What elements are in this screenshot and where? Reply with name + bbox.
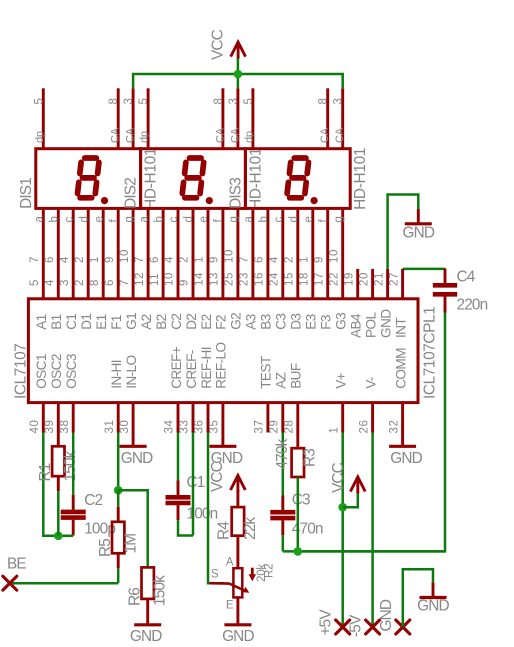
wire V- net	[371, 433, 374, 628]
svg-text:OSC2: OSC2	[49, 354, 64, 389]
pin d DIS2 to IC D2 (pin 9)	[192, 208, 195, 298]
svg-text:b: b	[49, 216, 61, 222]
wire R5 to BE net	[117, 568, 120, 583]
svg-text:8: 8	[89, 279, 101, 286]
IC pin 36 REF-HI	[207, 403, 210, 433]
wire GND connector to ground	[403, 569, 433, 627]
svg-text:5: 5	[29, 279, 41, 286]
svg-text:2: 2	[179, 256, 191, 263]
svg-text:22: 22	[328, 272, 340, 286]
svg-text:34: 34	[164, 420, 176, 434]
wire IC pin 21 GND to ground	[388, 195, 419, 269]
svg-text:8: 8	[108, 98, 120, 105]
svg-text:100n: 100n	[187, 506, 218, 523]
svg-text:AB4: AB4	[349, 313, 364, 338]
svg-text:dp: dp	[139, 131, 151, 143]
svg-text:10: 10	[119, 249, 131, 263]
wire VCC stub DIS2 anode	[237, 74, 240, 88]
svg-text:470n: 470n	[292, 521, 323, 538]
resistor R6 150k	[142, 567, 154, 599]
svg-text:TEST: TEST	[259, 356, 274, 389]
svg-text:F1: F1	[109, 315, 124, 330]
pin CA DIS2 (8)	[221, 88, 224, 148]
svg-text:C4: C4	[457, 269, 476, 286]
svg-text:9: 9	[209, 256, 221, 263]
pin b DIS1 to IC B1 (pin 4)	[57, 208, 60, 298]
svg-text:31: 31	[104, 420, 116, 434]
svg-text:A: A	[226, 557, 234, 569]
svg-text:38: 38	[59, 420, 71, 434]
wire OSC1 net	[43, 433, 73, 536]
pin a DIS2 to IC A2 (pin 12)	[147, 208, 150, 298]
svg-text:2: 2	[74, 279, 86, 286]
svg-text:dp: dp	[34, 131, 46, 143]
svg-text:GND: GND	[390, 450, 422, 467]
svg-text:16: 16	[254, 272, 266, 286]
svg-text:1M: 1M	[123, 534, 140, 554]
svg-text:1: 1	[328, 427, 340, 434]
IC pin 26 V-	[371, 403, 374, 433]
svg-text:R6: R6	[126, 588, 143, 606]
svg-text:REF-LO: REF-LO	[214, 343, 229, 389]
pin g DIS1 to IC G1 (pin 7)	[132, 208, 135, 298]
svg-text:CA: CA	[110, 127, 122, 143]
svg-text:C3: C3	[292, 492, 310, 509]
svg-text:B3: B3	[259, 314, 274, 329]
svg-text:4: 4	[59, 256, 71, 263]
connector BE	[3, 576, 17, 590]
supply VCC top	[231, 42, 246, 57]
svg-text:6: 6	[44, 256, 56, 263]
svg-text:CA: CA	[214, 127, 226, 143]
svg-text:9: 9	[179, 279, 191, 286]
svg-text:2: 2	[74, 256, 86, 263]
svg-text:S: S	[211, 569, 219, 581]
IC pin 30 IN-LO	[132, 403, 135, 433]
svg-text:G1: G1	[124, 313, 139, 330]
IC pin 1 V+	[341, 403, 344, 433]
svg-text:C1: C1	[187, 474, 205, 491]
svg-text:OSC3: OSC3	[64, 354, 79, 389]
pin b DIS2 to IC B2 (pin 11)	[162, 208, 165, 298]
wire VCC rail to display anodes	[133, 74, 343, 88]
svg-text:24: 24	[269, 272, 281, 286]
svg-text:R1: R1	[37, 463, 54, 481]
pin a DIS1 to IC A1 (pin 5)	[42, 208, 45, 298]
svg-text:33: 33	[179, 420, 191, 434]
svg-text:D3: D3	[289, 314, 304, 330]
svg-text:C1: C1	[64, 314, 79, 330]
pin d DIS1 to IC D1 (pin 2)	[87, 208, 90, 298]
wire to R6	[118, 490, 148, 567]
svg-text:c: c	[168, 217, 180, 223]
wire REF-HI to R2 wiper	[208, 433, 224, 584]
svg-text:C3: C3	[274, 314, 289, 330]
svg-text:d: d	[288, 216, 300, 222]
pin g DIS2 to IC G2 (pin 25)	[236, 208, 239, 298]
svg-text:E1: E1	[94, 314, 109, 329]
svg-text:E2: E2	[199, 314, 214, 329]
svg-text:R3: R3	[301, 449, 318, 467]
svg-text:26: 26	[358, 420, 370, 434]
svg-text:150k: 150k	[151, 575, 168, 606]
svg-text:e: e	[303, 216, 315, 222]
svg-text:4: 4	[269, 256, 281, 263]
svg-text:19: 19	[343, 272, 355, 286]
junction OSC1/R1/C2	[54, 532, 63, 541]
svg-text:e: e	[93, 216, 105, 222]
svg-text:21: 21	[373, 272, 385, 286]
svg-text:g: g	[333, 216, 345, 222]
capacitor C4	[444, 268, 447, 283]
svg-text:C2: C2	[84, 492, 102, 509]
svg-text:2: 2	[284, 256, 296, 263]
pin e DIS1 to IC E1 (pin 8)	[102, 208, 105, 298]
svg-text:7: 7	[239, 256, 251, 263]
pin CA DIS1 (8)	[117, 88, 120, 148]
junction V+	[338, 503, 347, 512]
resistor R5 1M	[117, 507, 120, 522]
svg-text:3: 3	[59, 279, 71, 286]
svg-text:10: 10	[164, 272, 176, 286]
display DIS1 HD-H101	[36, 149, 141, 209]
junction IN-HI	[114, 486, 123, 495]
connector +5V	[336, 620, 350, 634]
svg-text:GND: GND	[378, 309, 393, 338]
svg-text:A2: A2	[139, 314, 154, 329]
svg-text:D2: D2	[184, 314, 199, 330]
IC pin 27 INT	[401, 269, 404, 299]
pin c DIS3 to IC C3 (pin 24)	[281, 208, 284, 298]
svg-text:CA: CA	[319, 127, 331, 143]
wire IC pin 27 INT to C4	[403, 268, 445, 271]
wire IN-HI net	[117, 433, 120, 491]
wire V+ net	[341, 433, 344, 628]
pin CA DIS2 (3)	[236, 88, 239, 148]
svg-text:17: 17	[313, 272, 325, 286]
svg-text:CA: CA	[229, 127, 241, 143]
svg-text:22k: 22k	[242, 517, 259, 540]
IC pin 37 TEST	[266, 403, 269, 433]
svg-text:30: 30	[119, 420, 131, 434]
svg-text:c: c	[63, 217, 75, 223]
svg-text:V+: V+	[334, 372, 349, 388]
wire C1 to CREF-	[178, 520, 193, 535]
svg-text:14: 14	[194, 272, 206, 286]
svg-text:A3: A3	[244, 314, 259, 329]
capacitor C2 100p	[72, 433, 75, 495]
wire C4 to auto-zero node	[298, 312, 445, 551]
svg-text:R5: R5	[97, 539, 114, 557]
svg-text:40: 40	[29, 420, 41, 434]
pin c DIS2 to IC C2 (pin 10)	[177, 208, 180, 298]
svg-text:36: 36	[194, 420, 206, 434]
svg-text:b: b	[153, 216, 165, 222]
svg-text:150k: 150k	[62, 450, 79, 481]
svg-text:GND: GND	[402, 225, 434, 242]
svg-text:12: 12	[134, 272, 146, 286]
pin a DIS3 to IC A3 (pin 23)	[251, 208, 254, 298]
pin e DIS2 to IC E2 (pin 14)	[207, 208, 210, 298]
junction auto-zero node	[294, 547, 303, 556]
svg-text:3: 3	[228, 98, 240, 105]
capacitor C3 470n	[281, 496, 284, 511]
pin dp DIS2	[147, 88, 150, 148]
pin CA DIS3 (3)	[341, 88, 344, 148]
IC pin 34 CREF+	[177, 403, 180, 433]
svg-text:-5V: -5V	[348, 614, 365, 637]
pin e DIS3 to IC E3 (pin 18)	[311, 208, 314, 298]
svg-text:F2: F2	[214, 315, 229, 330]
ground on IC pin	[132, 432, 135, 447]
svg-text:d: d	[78, 216, 90, 222]
svg-text:C2: C2	[169, 314, 184, 330]
svg-text:VCC: VCC	[330, 462, 347, 493]
svg-text:4: 4	[164, 256, 176, 263]
svg-text:32: 32	[388, 420, 400, 434]
wire CREF- net	[192, 433, 195, 536]
IC pin 39 OSC2	[57, 403, 60, 433]
svg-text:+5V: +5V	[318, 609, 335, 636]
svg-text:REF-HI: REF-HI	[199, 347, 214, 389]
svg-text:IN-LO: IN-LO	[124, 356, 139, 389]
svg-text:3: 3	[123, 98, 135, 105]
svg-text:E: E	[226, 600, 234, 612]
svg-text:CA: CA	[334, 127, 346, 143]
svg-text:7: 7	[119, 279, 131, 286]
svg-text:HD-H101: HD-H101	[247, 148, 264, 210]
svg-text:CREF+: CREF+	[169, 346, 184, 389]
svg-text:VCC: VCC	[210, 29, 227, 60]
svg-text:VCC: VCC	[209, 461, 226, 492]
svg-text:D1: D1	[79, 314, 94, 330]
svg-text:8: 8	[213, 98, 225, 105]
svg-text:3: 3	[333, 98, 345, 105]
pin d DIS3 to IC D3 (pin 15)	[296, 208, 299, 298]
svg-text:20: 20	[358, 272, 370, 286]
svg-text:DIS2: DIS2	[123, 178, 140, 209]
svg-text:6: 6	[149, 256, 161, 263]
svg-text:COMM: COMM	[393, 348, 408, 389]
wire BE	[10, 582, 118, 585]
svg-text:29: 29	[269, 420, 281, 434]
svg-text:23: 23	[239, 272, 251, 286]
svg-text:10: 10	[328, 249, 340, 263]
IC pin 31 IN-HI	[117, 403, 120, 433]
connector -5V	[366, 620, 380, 634]
svg-text:27: 27	[388, 272, 400, 286]
ground under R2	[236, 597, 239, 624]
svg-text:4: 4	[44, 279, 56, 286]
svg-text:1: 1	[194, 256, 206, 263]
svg-text:ICL7107: ICL7107	[12, 344, 29, 399]
connector GND bottom	[396, 620, 410, 634]
display DIS2 HD-H101	[141, 149, 246, 209]
svg-text:9: 9	[104, 256, 116, 263]
svg-text:5: 5	[33, 98, 45, 105]
junction VCC rail	[234, 70, 243, 79]
svg-text:G2: G2	[229, 313, 244, 330]
svg-text:37: 37	[254, 420, 266, 434]
svg-text:BE: BE	[7, 556, 26, 573]
svg-text:INT: INT	[393, 318, 408, 338]
svg-text:OSC1: OSC1	[34, 354, 49, 389]
svg-text:g: g	[228, 216, 240, 222]
svg-text:B1: B1	[49, 314, 64, 329]
svg-text:g: g	[123, 216, 135, 222]
svg-text:IN-HI: IN-HI	[109, 360, 124, 389]
pin CA DIS3 (8)	[326, 88, 329, 148]
IC pin 35 REF-LO	[221, 403, 224, 433]
pin CA DIS1 (3)	[132, 88, 135, 148]
IC pin 20 POL	[371, 269, 374, 299]
svg-text:9: 9	[313, 256, 325, 263]
svg-text:CA: CA	[125, 127, 137, 143]
svg-text:35: 35	[209, 420, 221, 434]
wire auto-zero node	[283, 550, 445, 553]
wire V+ to VCC arrow	[343, 494, 358, 508]
svg-text:c: c	[273, 217, 285, 223]
svg-text:V-: V-	[363, 377, 378, 389]
IC pin 29 AZ	[281, 403, 284, 433]
ground on IC pin	[221, 432, 224, 447]
svg-text:e: e	[198, 216, 210, 222]
svg-text:d: d	[183, 216, 195, 222]
resistor R4 22k	[236, 490, 239, 507]
svg-text:CREF-: CREF-	[184, 350, 199, 389]
svg-text:GND: GND	[222, 628, 254, 645]
pin b DIS3 to IC B3 (pin 16)	[266, 208, 269, 298]
ground near IC pin 21	[417, 209, 420, 224]
pin f DIS2 to IC F2 (pin 13)	[221, 208, 224, 298]
svg-text:5: 5	[243, 98, 255, 105]
IC pin 21 GND	[386, 269, 389, 299]
IC pin 32 COMM	[401, 403, 404, 433]
ground bottom right	[432, 582, 435, 597]
IC pin 38 OSC3	[72, 403, 75, 433]
svg-text:dp: dp	[243, 131, 255, 143]
svg-text:G3: G3	[334, 313, 349, 330]
wire IN-HI to R5	[117, 490, 120, 507]
resistor R3 470k	[296, 432, 299, 449]
svg-text:ICL7107CPL1: ICL7107CPL1	[422, 307, 439, 399]
svg-text:F3: F3	[319, 315, 334, 330]
resistor R1 150k	[57, 432, 60, 447]
svg-text:DIS3: DIS3	[227, 178, 244, 209]
svg-text:DIS1: DIS1	[18, 178, 35, 209]
svg-text:GND: GND	[130, 628, 162, 645]
svg-text:13: 13	[209, 272, 221, 286]
wire BUF to node	[297, 477, 300, 551]
svg-text:POL: POL	[363, 312, 378, 338]
svg-text:18: 18	[299, 272, 311, 286]
pin f DIS1 to IC F1 (pin 6)	[117, 208, 120, 298]
svg-text:a: a	[243, 216, 255, 223]
svg-text:470k: 470k	[274, 438, 291, 469]
supply VCC on V+	[350, 477, 365, 492]
svg-text:1: 1	[89, 256, 101, 263]
wire CREF+ net	[177, 433, 180, 481]
IC pin 28 BUF	[296, 403, 299, 433]
svg-text:6: 6	[104, 279, 116, 286]
svg-text:1: 1	[299, 256, 311, 263]
svg-text:B2: B2	[154, 314, 169, 329]
svg-text:28: 28	[284, 420, 296, 434]
svg-text:R2: R2	[264, 564, 276, 578]
svg-text:39: 39	[44, 420, 56, 434]
IC pin 33 CREF-	[192, 403, 195, 433]
ground on IC pin	[401, 432, 404, 447]
pin dp DIS1	[42, 88, 45, 148]
IC pin 19 AB4	[356, 269, 359, 299]
svg-text:A1: A1	[34, 314, 49, 329]
pin c DIS1 to IC C1 (pin 3)	[72, 208, 75, 298]
ground under R6	[146, 599, 149, 625]
pin f DIS3 to IC F3 (pin 17)	[326, 208, 329, 298]
pin g DIS3 to IC G3 (pin 22)	[341, 208, 344, 298]
svg-text:E3: E3	[304, 314, 319, 329]
trimmer R2 20k	[233, 568, 242, 597]
svg-text:R4: R4	[215, 521, 232, 540]
svg-text:BUF: BUF	[289, 363, 304, 389]
svg-text:10: 10	[224, 249, 236, 263]
svg-text:GND: GND	[417, 598, 449, 615]
wire C3 to node	[282, 535, 285, 551]
svg-text:15: 15	[284, 272, 296, 286]
wire AZ net	[282, 433, 285, 508]
op-amp U1 ICL7107 body	[28, 299, 418, 403]
svg-text:GND: GND	[378, 599, 395, 631]
svg-text:7: 7	[29, 256, 41, 263]
svg-text:11: 11	[149, 273, 161, 286]
svg-text:8: 8	[318, 98, 330, 105]
svg-text:HD-H101: HD-H101	[352, 148, 369, 210]
svg-text:a: a	[34, 216, 46, 223]
svg-text:220n: 220n	[457, 297, 488, 314]
pin dp DIS3	[251, 88, 254, 148]
svg-text:b: b	[258, 216, 270, 222]
svg-text:AZ: AZ	[274, 372, 289, 388]
supply VCC above R4	[231, 476, 246, 491]
svg-text:HD-H101: HD-H101	[143, 148, 160, 210]
display DIS3 HD-H101	[245, 149, 350, 209]
svg-text:a: a	[138, 216, 150, 223]
svg-text:6: 6	[254, 256, 266, 263]
svg-text:5: 5	[138, 98, 150, 105]
IC pin 40 OSC1	[42, 403, 45, 433]
svg-text:7: 7	[134, 256, 146, 263]
capacitor C1 100n	[177, 480, 180, 495]
wire R1 to OSC1 node	[57, 491, 60, 536]
svg-text:25: 25	[224, 272, 236, 286]
svg-text:GND: GND	[121, 450, 153, 467]
